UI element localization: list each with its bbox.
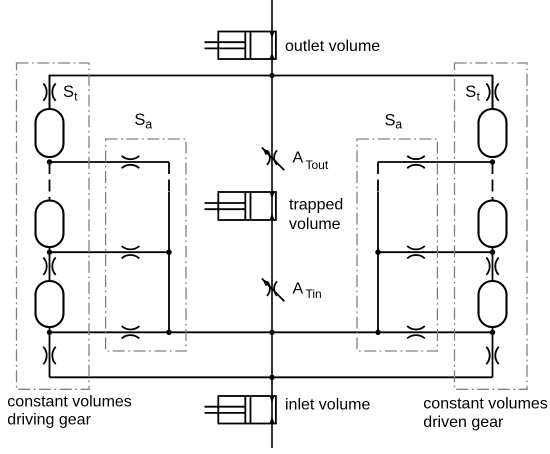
orifice Sa right on W4 bbox=[407, 326, 425, 338]
orifice Sa left on W4 bbox=[122, 326, 140, 338]
boundary box constant volumes driving gear (left outer dash-dot) bbox=[17, 63, 90, 389]
wire left column top segment (W1 to oval 1 through St orifice) bbox=[49, 76, 51, 110]
boundary box constant volumes driven gear (right outer dash-dot) bbox=[455, 63, 528, 389]
node junction right column / W4 bbox=[490, 330, 495, 335]
piston actuator trapped volume (body, piston lines, rod, inflow arrows) bbox=[205, 192, 276, 220]
node junction right column / W2 bbox=[490, 159, 495, 164]
variable orifice A_Tout bbox=[262, 148, 285, 171]
wire left column bottom segment (oval 3 to W5) bbox=[49, 327, 51, 377]
svg-text:a: a bbox=[145, 117, 152, 131]
wire left Sa connector dashed segment bbox=[168, 162, 170, 192]
svg-text:a: a bbox=[395, 118, 402, 132]
node junction right connector / W4 bbox=[375, 330, 380, 335]
svg-text:constant volumes: constant volumes bbox=[7, 393, 132, 410]
orifice Sa left on W3 bbox=[122, 246, 140, 258]
volume oval left 3 bbox=[36, 281, 64, 327]
node junction left connector / W3 bbox=[166, 250, 171, 255]
svg-text:inlet volume: inlet volume bbox=[285, 397, 370, 414]
svg-text:Tout: Tout bbox=[306, 158, 329, 172]
wire left column mid segment (oval 2 to oval 3) bbox=[49, 247, 51, 281]
svg-text:S: S bbox=[63, 83, 74, 101]
volume oval right 3 bbox=[479, 281, 507, 327]
wire W4 full width bbox=[50, 331, 493, 333]
node junction left column / W2 bbox=[47, 159, 52, 164]
wire right column bottom segment (oval 3 to W5) bbox=[492, 327, 494, 377]
wire center vertical net (inlet-outlet axis) bbox=[271, 0, 273, 448]
volume oval right 1 (driven gear tooth space) bbox=[479, 109, 507, 157]
wire W2 left bbox=[50, 161, 170, 163]
svg-text:t: t bbox=[477, 92, 481, 104]
piston actuator outlet volume (body, piston lines, rod, inflow arrows) bbox=[205, 32, 276, 60]
orifice Sa right on W2 bbox=[407, 156, 425, 168]
svg-text:S: S bbox=[134, 111, 145, 129]
node junction center line / W5 bbox=[269, 375, 274, 380]
node junction center line / W1 bbox=[269, 73, 274, 78]
orifice left column mid bbox=[43, 258, 55, 275]
wire right column top segment (W1 to oval 1 through St orifice) bbox=[492, 76, 494, 110]
orifice left column bottom bbox=[43, 347, 55, 364]
boundary box Sa right inner dash-dot bbox=[357, 139, 437, 351]
orifice St left top bbox=[43, 83, 55, 100]
node junction left connector / W4 bbox=[166, 330, 171, 335]
volume oval left 1 (driving gear tooth space) bbox=[36, 109, 64, 157]
piston actuator inlet volume (body, piston lines, rod, inflow arrows) bbox=[205, 396, 276, 424]
wire W2 right bbox=[378, 161, 493, 163]
orifice right column bottom bbox=[486, 347, 498, 364]
wire left Sa connector solid segment bbox=[168, 192, 170, 332]
wire W5 inlet header full width bbox=[50, 376, 493, 378]
svg-text:S: S bbox=[465, 83, 476, 101]
svg-text:Tin: Tin bbox=[306, 287, 322, 301]
svg-text:S: S bbox=[385, 112, 396, 130]
wire W3 right bbox=[378, 251, 493, 253]
node junction right connector / W3 bbox=[375, 250, 380, 255]
node junction left column / W3 bbox=[47, 250, 52, 255]
boundary box Sa left inner dash-dot bbox=[106, 139, 186, 351]
svg-text:volume: volume bbox=[289, 216, 341, 233]
svg-text:driven gear: driven gear bbox=[423, 414, 504, 431]
svg-text:t: t bbox=[74, 92, 78, 104]
node junction left column / W4 bbox=[47, 330, 52, 335]
svg-text:trapped: trapped bbox=[289, 197, 343, 214]
wire right Sa connector solid segment bbox=[377, 192, 379, 332]
svg-text:A: A bbox=[293, 281, 304, 298]
wire W1 outlet header (left riser, top run, right riser) bbox=[50, 76, 493, 110]
svg-text:constant volumes: constant volumes bbox=[423, 396, 548, 413]
svg-text:outlet volume: outlet volume bbox=[285, 38, 380, 55]
node junction center line / W4 bbox=[269, 330, 274, 335]
volume oval right 2 bbox=[479, 201, 507, 248]
wire right Sa connector dashed segment bbox=[377, 162, 379, 192]
wire right column dashed segment (to oval 2) bbox=[492, 162, 494, 201]
orifice Sa left on W2 bbox=[122, 156, 140, 168]
wire W3 left bbox=[50, 251, 170, 253]
node junction right column / W3 bbox=[490, 250, 495, 255]
orifice St right top bbox=[486, 83, 498, 100]
variable orifice A_Tin bbox=[262, 279, 285, 302]
wire right column mid segment (oval 2 to oval 3) bbox=[492, 247, 494, 281]
svg-text:driving gear: driving gear bbox=[7, 412, 91, 429]
orifice Sa right on W3 bbox=[407, 246, 425, 258]
orifice right column mid bbox=[486, 258, 498, 275]
svg-text:A: A bbox=[293, 150, 304, 167]
wire left column dashed segment (to oval 2) bbox=[49, 162, 51, 201]
volume oval left 2 bbox=[36, 201, 64, 248]
